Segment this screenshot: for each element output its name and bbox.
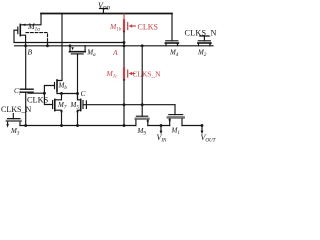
junction dot dashed box to B row — [46, 44, 49, 47]
wire M1c drain down to gate row — [123, 80, 125, 126]
wire bottom signal line — [20, 125, 202, 127]
wire M1a drain to node B — [20, 35, 25, 46]
transistor M1c (red, CLKS_N) — [123, 46, 125, 69]
wire node B row — [15, 45, 214, 47]
wire switch gate row — [86, 104, 175, 106]
transistor M1b (red, CLKS) — [124, 14, 135, 31]
node A junction dots — [123, 41, 126, 44]
svg-text:CLKS_N: CLKS_N — [133, 70, 162, 79]
wire VDD column to Mb — [57, 14, 62, 81]
wire node C row — [57, 93, 78, 95]
port VIN arrow — [160, 124, 163, 127]
junction dot CLKS input — [28, 92, 44, 94]
wire column B row to M9 gate — [141, 46, 143, 116]
transistor M7 (NMOS inverter left) — [52, 101, 54, 109]
transistor Mb (PMOS of CLKS inverter) — [56, 80, 58, 91]
transistor M1a — [19, 24, 21, 35]
wire M1b drain down to node A — [123, 31, 125, 46]
transistor M2 (gate to CLKS_N) — [200, 36, 209, 41]
wire M1a source to rail — [20, 14, 41, 25]
svg-text:B: B — [28, 48, 33, 57]
svg-text:CLKS: CLKS — [138, 23, 158, 32]
transistor Ma — [69, 46, 71, 51]
svg-text:CLKS_N: CLKS_N — [185, 29, 217, 38]
transistor M9 (series switch, bottom) — [136, 115, 147, 117]
transistor M4 (gate to VDD) — [171, 14, 173, 41]
junction dot Ma left at B row — [69, 44, 72, 47]
wire Ma gate column to node C — [77, 55, 79, 100]
svg-text:CLKS: CLKS — [27, 96, 49, 105]
svg-text:CLKS_N: CLKS_N — [1, 105, 31, 114]
junction dot B at M1a drain — [24, 44, 27, 47]
svg-text:A: A — [112, 48, 118, 57]
wire Mb drain to node C — [56, 91, 58, 94]
wire VDD rail — [41, 13, 172, 15]
transistor M3 (bottom left, gate to CLKS_N) — [12, 114, 14, 119]
transistor M1 (main sampling switch) — [174, 105, 176, 115]
junction dot node C end — [76, 92, 79, 95]
dashed well box of M1a — [26, 33, 48, 46]
wire node A row (M1a gate wire) — [14, 30, 123, 42]
capacitor C1 — [25, 46, 27, 89]
transistor M5 (NMOS right, gate to switch-gate row) — [82, 101, 84, 109]
port VOUT arrow — [201, 124, 204, 127]
power VDD symbol — [100, 9, 108, 14]
